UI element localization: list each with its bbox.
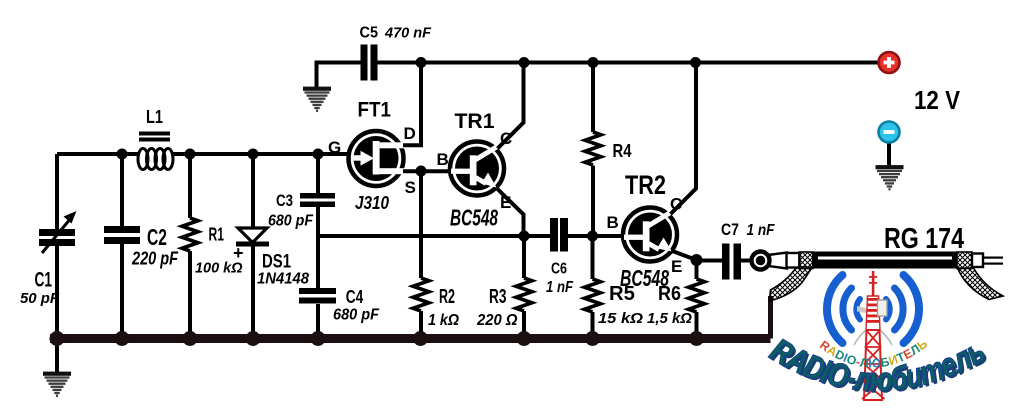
svg-text:C3: C3 bbox=[276, 191, 293, 210]
svg-text:BC548: BC548 bbox=[450, 205, 498, 231]
svg-text:C: C bbox=[670, 195, 682, 214]
svg-text:E: E bbox=[671, 257, 682, 276]
svg-text:C5: C5 bbox=[360, 25, 379, 42]
svg-text:50 pF: 50 pF bbox=[20, 290, 60, 307]
svg-text:R1: R1 bbox=[209, 225, 225, 245]
svg-text:E: E bbox=[500, 193, 511, 212]
svg-text:B: B bbox=[437, 150, 449, 169]
svg-text:1,5 kΩ: 1,5 kΩ bbox=[647, 310, 692, 327]
svg-text:R5: R5 bbox=[609, 283, 635, 305]
svg-text:680 pF: 680 pF bbox=[333, 307, 380, 324]
svg-text:1 nF: 1 nF bbox=[747, 222, 776, 239]
svg-text:C4: C4 bbox=[346, 286, 364, 307]
svg-text:220 Ω: 220 Ω bbox=[476, 312, 518, 329]
svg-text:FT1: FT1 bbox=[358, 99, 392, 122]
svg-text:R4: R4 bbox=[613, 141, 632, 161]
svg-text:RG 174: RG 174 bbox=[884, 223, 964, 255]
svg-text:G: G bbox=[328, 138, 341, 157]
svg-text:220 pF: 220 pF bbox=[131, 249, 179, 269]
svg-text:1N4148: 1N4148 bbox=[257, 271, 309, 288]
svg-text:680 pF: 680 pF bbox=[268, 213, 314, 230]
svg-text:12 V: 12 V bbox=[914, 85, 961, 115]
svg-text:R6: R6 bbox=[658, 283, 681, 305]
svg-text:C: C bbox=[500, 129, 512, 148]
svg-text:R3: R3 bbox=[489, 286, 507, 308]
svg-text:J310: J310 bbox=[355, 193, 389, 213]
svg-text:+: + bbox=[233, 243, 244, 263]
svg-text:L1: L1 bbox=[146, 107, 163, 127]
svg-text:S: S bbox=[405, 178, 416, 197]
svg-text:1 kΩ: 1 kΩ bbox=[428, 312, 459, 329]
svg-text:R2: R2 bbox=[439, 286, 455, 308]
svg-text:C6: C6 bbox=[551, 261, 567, 278]
svg-text:C1: C1 bbox=[35, 269, 53, 292]
svg-text:15 kΩ: 15 kΩ bbox=[598, 310, 643, 327]
svg-text:TR1: TR1 bbox=[455, 110, 495, 133]
svg-text:B: B bbox=[607, 213, 619, 232]
svg-text:470 nF: 470 nF bbox=[384, 25, 432, 42]
svg-text:TR2: TR2 bbox=[625, 170, 666, 200]
svg-text:C7: C7 bbox=[721, 220, 739, 239]
svg-text:DS1: DS1 bbox=[262, 252, 291, 273]
svg-text:1 nF: 1 nF bbox=[546, 279, 574, 296]
svg-text:C2: C2 bbox=[147, 224, 167, 250]
svg-text:D: D bbox=[404, 124, 416, 143]
